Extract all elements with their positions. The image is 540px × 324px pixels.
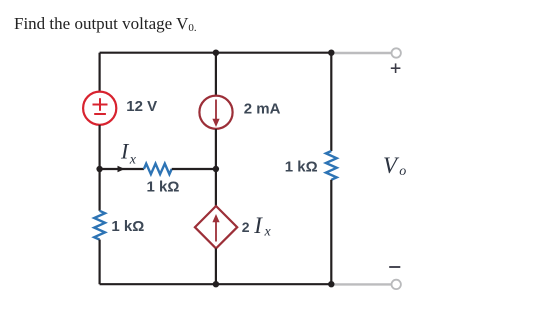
current source I1 2 mA <box>199 96 232 129</box>
wire: right rail upper segment <box>330 53 332 151</box>
node: bottom middle junction <box>213 281 219 287</box>
wire: left rail middle segment <box>98 125 100 211</box>
dependent current source 2Ix (diamond) <box>195 206 237 248</box>
svg-text:x: x <box>129 153 137 168</box>
title text <box>14 14 197 34</box>
wire: right rail lower segment <box>330 180 332 284</box>
svg-text:1 kΩ: 1 kΩ <box>285 159 318 176</box>
wire: bottom rail <box>100 283 332 285</box>
label: 12 V <box>126 98 157 115</box>
node: top right junction <box>328 50 334 56</box>
label: Ix current <box>120 139 137 168</box>
svg-text:V: V <box>383 153 400 178</box>
label: + polarity <box>391 63 401 73</box>
voltage source V1 12 V <box>83 92 116 125</box>
label: 1 kOhm (middle) <box>147 179 180 196</box>
node: top middle junction <box>213 50 219 56</box>
wire: middle rail lower segment <box>215 248 217 284</box>
terminal: - output <box>392 280 401 289</box>
svg-text:I: I <box>253 213 263 238</box>
wire: middle rail upper segment <box>215 53 217 96</box>
svg-text:I: I <box>120 139 130 164</box>
wire: top rail <box>100 52 332 54</box>
node: left middle junction <box>96 166 102 172</box>
wire: middle branch left segment with current arrow <box>100 166 144 172</box>
svg-text:12 V: 12 V <box>126 98 157 115</box>
svg-text:o: o <box>399 164 406 179</box>
wire: middle branch right segment <box>172 168 216 170</box>
wire: left rail lower segment <box>98 240 100 285</box>
label: 1 kOhm (left) <box>111 218 144 235</box>
resistor R1 1 kOhm (middle horizontal) <box>144 164 172 175</box>
wire: middle rail centre segment <box>215 129 217 206</box>
svg-text:2: 2 <box>242 219 250 235</box>
wire: bottom output lead (gray) <box>331 283 391 285</box>
wire: top output lead (gray) <box>331 52 391 54</box>
label: 1 kOhm (right) <box>285 159 318 176</box>
svg-text:1 kΩ: 1 kΩ <box>147 179 180 196</box>
svg-text:x: x <box>264 224 272 239</box>
wire: left rail upper segment <box>98 53 100 92</box>
resistor R2 1 kOhm (right vertical) <box>326 151 337 180</box>
label: 2 Ix <box>242 213 272 240</box>
terminal: + output <box>392 48 401 57</box>
label: - polarity <box>389 266 400 268</box>
svg-text:1 kΩ: 1 kΩ <box>111 218 144 235</box>
svg-text:2 mA: 2 mA <box>244 101 281 118</box>
node: centre junction <box>213 166 219 172</box>
label: 2 mA <box>244 101 281 118</box>
node: bottom right junction <box>328 281 334 287</box>
label: Vo output voltage <box>383 153 406 179</box>
resistor R3 1 kOhm (left vertical) <box>94 211 105 240</box>
